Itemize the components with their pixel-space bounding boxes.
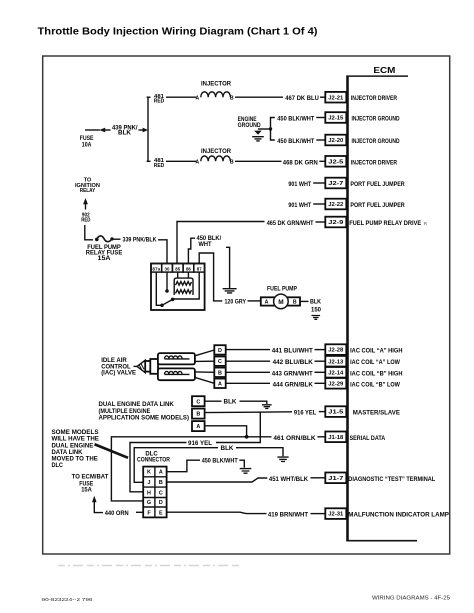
svg-text:916 YEL: 916 YEL	[188, 440, 212, 447]
svg-text:441 BLU/WHT: 441 BLU/WHT	[272, 348, 314, 355]
svg-text:H: H	[147, 490, 151, 496]
svg-text:BLK: BLK	[118, 130, 132, 137]
svg-text:90-823224--2 796: 90-823224--2 796	[42, 597, 93, 603]
svg-text:IAC COIL “A” LOW: IAC COIL “A” LOW	[350, 359, 400, 366]
svg-text:A: A	[196, 424, 200, 430]
svg-text:87: 87	[197, 266, 202, 271]
svg-text:RELAY: RELAY	[80, 188, 96, 194]
svg-text:J2-29: J2-29	[328, 381, 343, 387]
svg-text:J2-31: J2-31	[328, 512, 343, 518]
svg-text:R: R	[424, 221, 428, 227]
svg-text:D: D	[218, 348, 222, 354]
svg-text:MASTER/SLAVE: MASTER/SLAVE	[353, 410, 401, 417]
svg-text:B: B	[218, 370, 222, 376]
svg-text:J1-7: J1-7	[328, 476, 343, 482]
svg-text:419 BRN/WHT: 419 BRN/WHT	[268, 512, 309, 519]
svg-text:B: B	[293, 299, 297, 305]
svg-text:BLK: BLK	[224, 399, 237, 406]
svg-text:467 DK BLU: 467 DK BLU	[285, 95, 319, 102]
svg-text:B: B	[196, 412, 200, 418]
svg-text:J: J	[148, 480, 151, 486]
svg-text:B: B	[230, 160, 234, 166]
svg-text:Throttle Body Injection Wiring: Throttle Body Injection Wiring Diagram (…	[38, 27, 318, 38]
svg-text:450 BLK/WHT: 450 BLK/WHT	[277, 116, 315, 123]
svg-text:150: 150	[311, 307, 321, 314]
svg-text:INJECTOR: INJECTOR	[201, 81, 231, 88]
svg-text:10A: 10A	[82, 142, 92, 149]
svg-text:INJECTOR GROUND: INJECTOR GROUND	[352, 116, 400, 123]
svg-text:FUEL PUMP RELAY DRIVE: FUEL PUMP RELAY DRIVE	[349, 220, 421, 227]
svg-text:916 YEL: 916 YEL	[294, 410, 316, 417]
svg-text:BLK: BLK	[310, 298, 321, 305]
svg-text:RED: RED	[154, 163, 165, 169]
svg-text:15A: 15A	[98, 255, 111, 262]
svg-text:DLC: DLC	[52, 462, 63, 469]
svg-text:PORT FUEL JUMPER: PORT FUEL JUMPER	[350, 181, 404, 188]
svg-text:INJECTOR DRIVER: INJECTOR DRIVER	[351, 159, 397, 166]
svg-text:IAC COIL “B” HIGH: IAC COIL “B” HIGH	[350, 370, 402, 377]
svg-text:339 PNK/BLK: 339 PNK/BLK	[123, 237, 157, 244]
svg-text:120 GRY: 120 GRY	[225, 298, 247, 305]
svg-text:E: E	[159, 510, 163, 516]
svg-text:J2-21: J2-21	[328, 95, 343, 101]
svg-text:451 WHT/BLK: 451 WHT/BLK	[269, 476, 308, 483]
svg-text:D: D	[159, 500, 163, 506]
svg-text:M: M	[278, 299, 283, 306]
svg-text:IAC COIL “A” HIGH: IAC COIL “A” HIGH	[350, 348, 402, 355]
svg-text:J2-22: J2-22	[328, 202, 343, 208]
svg-text:WHT: WHT	[199, 241, 212, 248]
svg-text:J1-18: J1-18	[328, 435, 343, 441]
svg-text:FUEL PUMP: FUEL PUMP	[267, 285, 297, 292]
svg-text:C: C	[159, 490, 163, 496]
svg-text:440 ORN: 440 ORN	[105, 510, 129, 517]
svg-text:INJECTOR: INJECTOR	[201, 148, 231, 155]
svg-text:RED: RED	[81, 217, 90, 223]
svg-text:85: 85	[175, 266, 180, 271]
svg-text:J2-20: J2-20	[328, 138, 343, 144]
svg-text:444 GRN/BLK: 444 GRN/BLK	[273, 381, 313, 388]
svg-text:87a: 87a	[152, 266, 160, 271]
svg-text:BLK: BLK	[221, 445, 234, 452]
svg-text:WIRING DIAGRAMS - 4F-25: WIRING DIAGRAMS - 4F-25	[372, 595, 450, 601]
svg-text:GROUND: GROUND	[238, 122, 261, 129]
svg-text:PORT FUEL JUMPER: PORT FUEL JUMPER	[350, 202, 404, 209]
svg-text:IAC COIL “B” LOW: IAC COIL “B” LOW	[350, 381, 400, 388]
svg-text:468 DK GRN: 468 DK GRN	[283, 159, 318, 166]
svg-text:J2-9: J2-9	[328, 220, 343, 226]
svg-text:442 BLU/BLK: 442 BLU/BLK	[273, 359, 313, 366]
svg-text:CONNECTOR: CONNECTOR	[137, 457, 170, 464]
svg-text:30: 30	[165, 266, 170, 271]
svg-text:443 GRN/WHT: 443 GRN/WHT	[272, 370, 314, 377]
svg-text:J2-28: J2-28	[328, 348, 343, 354]
svg-text:450 BLK/WHT: 450 BLK/WHT	[277, 138, 315, 145]
svg-text:J2-7: J2-7	[328, 181, 343, 187]
svg-text:86: 86	[186, 266, 191, 271]
svg-text:ECM: ECM	[373, 65, 395, 75]
svg-text:RED: RED	[154, 99, 165, 105]
svg-text:465 DK GRN/WHT: 465 DK GRN/WHT	[267, 220, 314, 227]
svg-text:C: C	[196, 399, 200, 405]
svg-text:461 ORN/BLK: 461 ORN/BLK	[273, 435, 315, 442]
svg-text:A: A	[195, 160, 199, 166]
svg-text:A: A	[195, 95, 199, 101]
svg-text:A: A	[218, 381, 222, 387]
svg-text:MALFUNCTION INDICATOR LAMP: MALFUNCTION INDICATOR LAMP	[348, 512, 449, 519]
svg-text:SERIAL DATA: SERIAL DATA	[350, 435, 386, 442]
svg-text:B: B	[230, 95, 234, 101]
svg-text:15A: 15A	[81, 486, 92, 493]
svg-text:A: A	[159, 470, 163, 476]
svg-text:APPLICATION SOME MODELS): APPLICATION SOME MODELS)	[99, 415, 190, 422]
svg-text:J2-5: J2-5	[328, 159, 343, 165]
svg-text:450 BLK/WHT: 450 BLK/WHT	[202, 458, 239, 465]
svg-text:DIAGNOSTIC “TEST” TERMINAL: DIAGNOSTIC “TEST” TERMINAL	[348, 476, 435, 483]
svg-text:(IAC) VALVE: (IAC) VALVE	[101, 370, 136, 377]
svg-text:INJECTOR DRIVER: INJECTOR DRIVER	[351, 95, 397, 102]
svg-text:K: K	[147, 470, 151, 476]
svg-text:C: C	[218, 359, 222, 365]
svg-text:901 WHT: 901 WHT	[288, 202, 311, 209]
svg-text:901 WHT: 901 WHT	[288, 181, 311, 188]
svg-text:INJECTOR GROUND: INJECTOR GROUND	[352, 138, 400, 145]
svg-text:J1-5: J1-5	[328, 410, 343, 416]
svg-text:B: B	[159, 480, 163, 486]
svg-text:J2-14: J2-14	[328, 370, 343, 376]
svg-text:G: G	[147, 500, 151, 506]
svg-text:A: A	[265, 299, 269, 305]
svg-text:J2-15: J2-15	[328, 116, 343, 122]
svg-text:J2-13: J2-13	[328, 359, 343, 365]
